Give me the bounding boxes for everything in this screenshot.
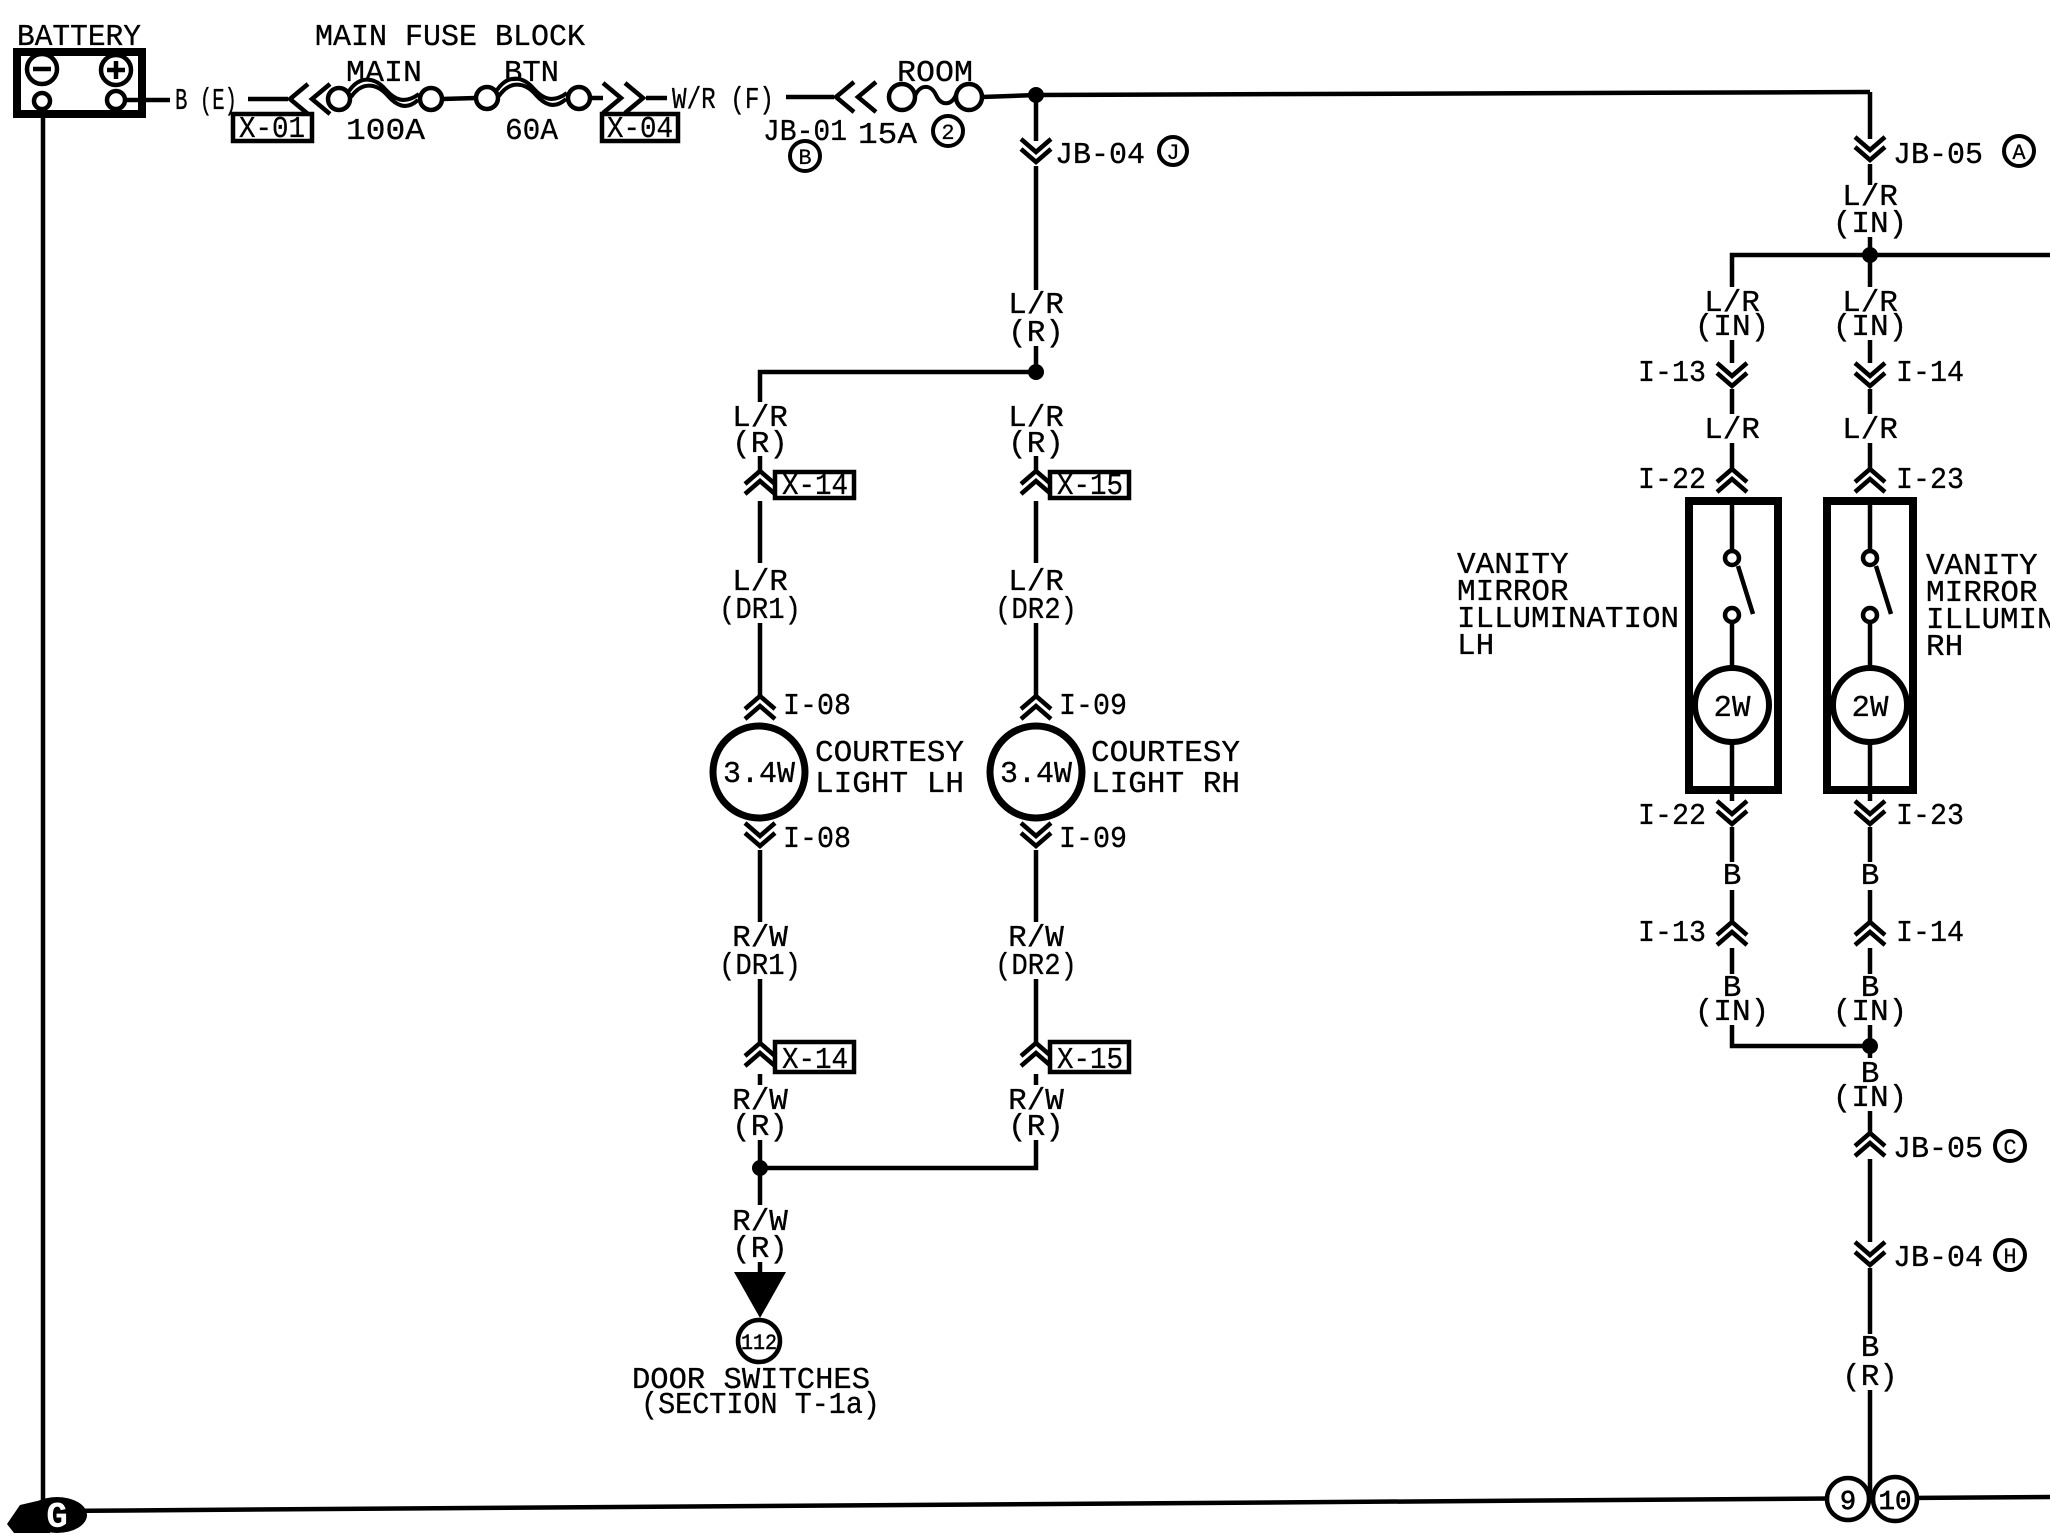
wire bbox=[1034, 623, 1039, 696]
battery positive post bbox=[107, 91, 125, 109]
ground G bbox=[7, 1497, 87, 1536]
node W/R (F) bbox=[646, 96, 667, 101]
wire bbox=[1034, 501, 1039, 563]
svg-text:X-14: X-14 bbox=[782, 1043, 848, 1078]
svg-text:A: A bbox=[2012, 141, 2026, 166]
wire bbox=[1868, 389, 1873, 414]
connector X-14 box lower bbox=[775, 1042, 854, 1072]
lamp vanity RH 2W bbox=[1833, 668, 1907, 742]
wire bbox=[758, 501, 763, 563]
connector X-04 chevron bbox=[603, 83, 643, 113]
connector I-09 chevron lower bbox=[1021, 823, 1051, 846]
svg-text:COURTESY: COURTESY bbox=[815, 736, 964, 771]
svg-text:I-08: I-08 bbox=[783, 689, 851, 724]
battery BOX bbox=[17, 52, 142, 114]
connector X-15 box bbox=[1050, 472, 1129, 498]
svg-text:112: 112 bbox=[741, 1331, 777, 1356]
svg-text:B: B bbox=[1861, 859, 1880, 894]
wire bbox=[1868, 1159, 1873, 1242]
lamp courtesy light RH 3.4W bbox=[990, 726, 1082, 818]
switch LH bbox=[1730, 497, 1735, 551]
svg-text:X-15: X-15 bbox=[1057, 469, 1123, 504]
wire B(E) to X-01 bbox=[248, 97, 288, 102]
svg-text:2W: 2W bbox=[1852, 691, 1889, 726]
wire between fuses bbox=[442, 98, 476, 99]
vanity mirror LH box bbox=[1689, 501, 1778, 790]
svg-text:10: 10 bbox=[1879, 1488, 1912, 1518]
svg-text:(R): (R) bbox=[1842, 1360, 1898, 1395]
connector I-14 chevron upper bbox=[1855, 363, 1885, 386]
svg-text:H: H bbox=[2003, 1245, 2016, 1270]
fuse ROOM 15A bbox=[858, 56, 982, 153]
connector I-14 chevron lower bbox=[1855, 922, 1885, 945]
svg-text:JB-04: JB-04 bbox=[1055, 138, 1145, 173]
wire vanity branch bus bbox=[1732, 255, 2050, 287]
svg-text:I-23: I-23 bbox=[1896, 463, 1964, 498]
svg-text:2W: 2W bbox=[1714, 691, 1751, 726]
svg-text:(IN): (IN) bbox=[1695, 995, 1769, 1030]
svg-text:X-01: X-01 bbox=[239, 112, 305, 147]
connector I-09 chevron upper bbox=[1021, 696, 1051, 719]
ground bus wire bbox=[48, 1497, 2050, 1511]
svg-text:ROOM: ROOM bbox=[897, 56, 973, 91]
wire bbox=[1730, 827, 1735, 862]
wire bbox=[1868, 1268, 1873, 1334]
battery plus terminal bbox=[101, 55, 131, 85]
wire to ground bus bbox=[1868, 1390, 1873, 1502]
wire bbox=[1868, 742, 1873, 801]
svg-text:RH: RH bbox=[1926, 630, 1963, 665]
connector X-15 box lower bbox=[1050, 1042, 1129, 1072]
connector I-08 chevron upper bbox=[745, 696, 775, 719]
svg-text:B (E): B (E) bbox=[175, 84, 237, 119]
wire bbox=[1034, 346, 1039, 372]
fuse MAIN 100A bbox=[328, 56, 442, 149]
svg-text:I-22: I-22 bbox=[1638, 463, 1706, 498]
connector JB-04 H chevron bbox=[1855, 1242, 1885, 1265]
svg-text:X-14: X-14 bbox=[782, 469, 848, 504]
wire merge LH to RH bbox=[1732, 1025, 1870, 1046]
wire bbox=[1730, 890, 1735, 922]
node top junction bbox=[1028, 87, 1044, 103]
wire bbox=[1034, 456, 1039, 471]
svg-text:100A: 100A bbox=[346, 114, 425, 149]
svg-text:LH: LH bbox=[1457, 629, 1494, 664]
svg-text:9: 9 bbox=[1840, 1488, 1856, 1518]
svg-text:JB-05: JB-05 bbox=[1893, 1132, 1983, 1167]
wire BTN to X-04 bbox=[590, 96, 603, 101]
wire bbox=[1868, 827, 1873, 862]
lamp vanity LH 2W bbox=[1695, 668, 1769, 742]
svg-text:(DR2): (DR2) bbox=[995, 949, 1077, 984]
svg-text:(IN): (IN) bbox=[1695, 310, 1769, 345]
svg-text:MAIN FUSE BLOCK: MAIN FUSE BLOCK bbox=[315, 20, 585, 55]
svg-text:I-14: I-14 bbox=[1896, 916, 1964, 951]
svg-text:(DR2): (DR2) bbox=[995, 593, 1077, 628]
connector I-22 chevron upper bbox=[1717, 469, 1747, 492]
svg-text:I-08: I-08 bbox=[783, 822, 851, 857]
svg-text:I-13: I-13 bbox=[1638, 916, 1706, 951]
svg-text:B: B bbox=[1723, 859, 1742, 894]
svg-text:15A: 15A bbox=[858, 118, 917, 153]
battery negative post bbox=[34, 93, 50, 109]
wire middle column drop bbox=[1034, 95, 1039, 141]
connector X-14 chevron bbox=[745, 471, 775, 494]
wire bbox=[1868, 1111, 1873, 1135]
svg-text:60A: 60A bbox=[505, 114, 558, 149]
node split junction bbox=[1028, 364, 1044, 380]
connector JB-05 C chevron bbox=[1855, 1133, 1885, 1156]
svg-text:G: G bbox=[46, 1497, 68, 1536]
wire bbox=[1034, 979, 1039, 1043]
lamp courtesy light LH 3.4W bbox=[713, 726, 805, 818]
connector X-15 chevron lower bbox=[1021, 1043, 1051, 1066]
svg-text:X-04: X-04 bbox=[607, 112, 673, 147]
wire bbox=[1868, 443, 1873, 469]
wire W/R to JB-01 bbox=[786, 95, 834, 100]
wire bbox=[758, 1074, 763, 1085]
svg-text:3.4W: 3.4W bbox=[1000, 757, 1072, 792]
connector X-14 chevron lower bbox=[745, 1043, 775, 1066]
wire bbox=[1730, 742, 1735, 801]
wire bbox=[758, 1262, 763, 1274]
wire battery ground drop bbox=[41, 109, 46, 1505]
wire merge to left column bbox=[760, 1140, 1036, 1168]
svg-text:JB-01: JB-01 bbox=[763, 115, 847, 150]
wire bbox=[758, 850, 763, 922]
svg-text:(SECTION T-1a): (SECTION T-1a) bbox=[641, 1388, 880, 1423]
connector I-13 chevron lower bbox=[1717, 922, 1747, 945]
svg-text:(IN): (IN) bbox=[1833, 1081, 1907, 1116]
wire bbox=[758, 456, 763, 471]
svg-text:L/R: L/R bbox=[1704, 413, 1760, 448]
svg-text:I-22: I-22 bbox=[1638, 799, 1706, 834]
svg-text:(DR1): (DR1) bbox=[719, 949, 801, 984]
svg-text:(R): (R) bbox=[1008, 1110, 1064, 1145]
svg-text:MAIN: MAIN bbox=[346, 56, 422, 91]
wire top right corner drop bbox=[1868, 92, 1873, 139]
off-page circle 112 bbox=[738, 1320, 780, 1362]
wire through junction bbox=[1868, 1025, 1873, 1058]
svg-text:BTN: BTN bbox=[504, 56, 559, 91]
ground point 9 bbox=[1827, 1478, 1869, 1520]
svg-text:JB-05: JB-05 bbox=[1893, 138, 1983, 173]
wire bbox=[1034, 850, 1039, 922]
svg-text:(R): (R) bbox=[732, 1110, 788, 1145]
svg-text:X-15: X-15 bbox=[1057, 1043, 1123, 1078]
svg-text:3.4W: 3.4W bbox=[723, 757, 795, 792]
connector JB-04 J chevron bbox=[1021, 139, 1051, 162]
svg-text:(DR1): (DR1) bbox=[719, 593, 801, 628]
svg-text:(IN): (IN) bbox=[1833, 207, 1907, 242]
wire bbox=[758, 623, 763, 696]
wire bbox=[1730, 389, 1735, 414]
ground point 10 bbox=[1873, 1477, 1917, 1521]
wire bbox=[758, 979, 763, 1043]
off-page arrow bbox=[734, 1272, 786, 1318]
wire battery to B(E) bbox=[125, 98, 170, 103]
wire top bus to right corner bbox=[982, 92, 1870, 97]
svg-text:I-23: I-23 bbox=[1896, 799, 1964, 834]
wire bbox=[1730, 340, 1735, 363]
vanity mirror RH box bbox=[1827, 501, 1913, 790]
node merge junction bbox=[752, 1160, 768, 1176]
connector JB-01 B chevron bbox=[836, 82, 876, 112]
svg-text:I-09: I-09 bbox=[1059, 822, 1127, 857]
connector I-13 chevron upper bbox=[1717, 363, 1747, 386]
wire bbox=[1868, 948, 1873, 974]
svg-text:L/R: L/R bbox=[1842, 413, 1898, 448]
svg-text:(IN): (IN) bbox=[1833, 995, 1907, 1030]
node vanity split junction bbox=[1862, 247, 1878, 263]
svg-text:(IN): (IN) bbox=[1833, 310, 1907, 345]
wire bbox=[1868, 340, 1873, 363]
svg-text:W/R (F): W/R (F) bbox=[672, 83, 774, 118]
svg-text:C: C bbox=[2003, 1136, 2016, 1161]
wire branch to left column bbox=[760, 372, 1036, 402]
wire bbox=[1868, 255, 1873, 287]
connector X-04 box bbox=[602, 114, 678, 141]
svg-text:(R): (R) bbox=[1008, 316, 1064, 351]
switch RH bbox=[1868, 497, 1873, 551]
connector X-15 chevron bbox=[1021, 471, 1051, 494]
svg-text:I-13: I-13 bbox=[1638, 356, 1706, 391]
wire bbox=[1034, 1074, 1039, 1085]
fuse BTN 60A bbox=[476, 56, 590, 149]
svg-text:B: B bbox=[798, 146, 811, 171]
wire bbox=[1730, 443, 1735, 469]
svg-text:JB-04: JB-04 bbox=[1893, 1241, 1983, 1276]
svg-text:2: 2 bbox=[941, 121, 954, 146]
svg-text:I-14: I-14 bbox=[1896, 356, 1964, 391]
connector JB-05 A chevron bbox=[1855, 137, 1885, 160]
wire bbox=[1868, 164, 1873, 185]
connector X-01 box bbox=[233, 114, 312, 141]
wire bbox=[1868, 237, 1873, 255]
wire bbox=[1034, 166, 1039, 290]
svg-text:LIGHT LH: LIGHT LH bbox=[815, 767, 964, 802]
svg-text:I-09: I-09 bbox=[1059, 689, 1127, 724]
wire bbox=[1730, 948, 1735, 974]
connector I-22 chevron lower bbox=[1717, 801, 1747, 824]
connector I-23 chevron upper bbox=[1855, 469, 1885, 492]
battery minus terminal bbox=[27, 54, 57, 84]
wire bbox=[1868, 890, 1873, 922]
connector X-14 box bbox=[775, 472, 854, 498]
node ground merge junction bbox=[1862, 1038, 1878, 1054]
svg-text:COURTESY: COURTESY bbox=[1091, 736, 1240, 771]
connector X-01 chevron bbox=[290, 84, 330, 114]
connector I-08 chevron lower bbox=[745, 823, 775, 846]
wire through merge junction bbox=[758, 1140, 763, 1205]
svg-text:LIGHT RH: LIGHT RH bbox=[1091, 767, 1240, 802]
connector I-23 chevron lower bbox=[1855, 801, 1885, 824]
svg-text:(R): (R) bbox=[732, 1232, 788, 1267]
svg-text:J: J bbox=[1166, 141, 1179, 166]
